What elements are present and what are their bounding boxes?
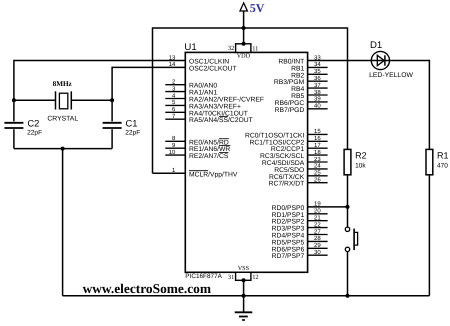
wire bottom ground rail xyxy=(63,295,430,297)
U1 pin 17 RC2/CCP1 xyxy=(271,142,328,153)
U1 pin 19 RD0/PSP0 xyxy=(272,201,322,212)
wire top power rail xyxy=(153,27,348,29)
label C1 xyxy=(126,118,138,129)
U1 pin 6 RA4/T0CKI/C1OUT xyxy=(165,106,248,117)
wire OSC2 pin14 to crystal right xyxy=(112,66,185,68)
svg-text:21: 21 xyxy=(314,215,321,222)
svg-text:32: 32 xyxy=(228,45,234,52)
wire 5V to VDD xyxy=(243,11,245,44)
label R1 xyxy=(437,151,449,161)
svg-text:25: 25 xyxy=(314,170,321,177)
junction crystal bottom center xyxy=(61,147,65,151)
svg-text:16: 16 xyxy=(314,135,321,142)
svg-text:CRYSTAL: CRYSTAL xyxy=(47,115,78,122)
label 8MHz xyxy=(53,80,73,88)
U1 pin 21 RD2/PSP2 xyxy=(272,215,328,226)
U1 pin 33 RB0/INT xyxy=(278,54,321,65)
wire button to ground rail xyxy=(347,252,349,296)
wire MCLR pin1 xyxy=(153,172,186,174)
svg-text:MCLR/Vpp/THV: MCLR/Vpp/THV xyxy=(189,171,238,178)
svg-text:24: 24 xyxy=(314,163,321,170)
wire left rail to MCLR xyxy=(152,27,154,173)
IC U1 PIC16F877A body xyxy=(185,52,307,272)
svg-text:18: 18 xyxy=(314,149,321,156)
U1 pin 15 RC0/T1OSO/T1CKI xyxy=(245,128,328,139)
junction button / ground rail xyxy=(346,294,350,298)
crystal X1 8MHz xyxy=(56,91,72,109)
wire left crystal vertical upper xyxy=(13,60,15,122)
svg-text:RE2/AN7/CS: RE2/AN7/CS xyxy=(189,153,229,160)
U1 pin 36 RB3/PGM xyxy=(274,75,328,86)
capacitor C2 xyxy=(4,123,23,128)
push button SW terminals xyxy=(345,227,349,251)
svg-text:40: 40 xyxy=(314,103,321,110)
svg-text:15: 15 xyxy=(314,128,321,135)
svg-text:23: 23 xyxy=(314,156,321,163)
svg-text:RB7/PGD: RB7/PGD xyxy=(275,107,305,114)
U1 VSS pin box (pins 31,12) xyxy=(228,265,259,283)
resistor R2 xyxy=(344,149,351,174)
wire left crystal vertical lower xyxy=(13,129,15,148)
U1 pin 9 RE1/AN6/WR xyxy=(165,142,230,153)
svg-text:U1: U1 xyxy=(184,42,196,53)
svg-text:C2: C2 xyxy=(27,118,39,129)
U1 pin 28 RD5/PSP5 xyxy=(272,235,328,246)
svg-text:22pF: 22pF xyxy=(27,130,42,137)
U1 pin 8 RE0/AN5/RD xyxy=(165,135,229,146)
svg-text:R2: R2 xyxy=(355,151,367,161)
wire crystal center tap to ground rail xyxy=(62,149,64,296)
label U1 xyxy=(184,42,196,53)
svg-text:17: 17 xyxy=(314,142,321,149)
svg-text:5V: 5V xyxy=(250,1,265,15)
wire crystal row left xyxy=(14,99,56,101)
U1 pin 14 OSC2/CLKOUT xyxy=(169,61,237,72)
U1 pin 13 OSC1/CLKIN xyxy=(169,54,230,65)
svg-text:22pF: 22pF xyxy=(125,130,140,137)
svg-text:31: 31 xyxy=(228,274,234,281)
U1 pin 30 RD7/PSP7 xyxy=(272,249,328,260)
U1 pin 39 RB6/PGC xyxy=(275,96,328,107)
svg-text:38: 38 xyxy=(314,89,321,96)
resistor R1 xyxy=(426,149,433,174)
label C2 xyxy=(27,118,39,129)
U1 pin 29 RD6/PSP6 xyxy=(272,242,328,253)
wire VSS to ground rail xyxy=(243,280,245,296)
wire R1 to ground rail xyxy=(428,175,430,296)
junction crystal row right xyxy=(110,98,114,102)
label 10k xyxy=(355,162,366,169)
U1 pin 3 RA1/AN1 xyxy=(165,85,217,96)
svg-text:LED-YELLOW: LED-YELLOW xyxy=(369,72,413,79)
svg-text:R1: R1 xyxy=(437,151,449,161)
svg-text:34: 34 xyxy=(314,61,321,68)
power symbol 5V arrow xyxy=(240,3,247,11)
label D1 xyxy=(370,40,382,51)
U1 pin 34 RB1 xyxy=(291,61,327,72)
svg-text:10k: 10k xyxy=(355,162,366,169)
junction RD0 / R2 / button xyxy=(346,205,350,209)
U1 pin 5 RA3/AN3/VREF+ xyxy=(165,99,241,110)
svg-text:12: 12 xyxy=(252,274,258,281)
wire crystal bottom xyxy=(14,148,112,150)
label 22pF (C2) xyxy=(27,130,42,137)
svg-text:VDD: VDD xyxy=(237,53,251,60)
U1 pin 26 RC7/RX/DT xyxy=(269,177,328,188)
U1 pin 22 RD3/PSP3 xyxy=(272,221,328,232)
svg-text:27: 27 xyxy=(314,228,321,235)
U1 pin 7 RA5/AN4/SS/C2OUT xyxy=(165,113,252,124)
wire R2 to button xyxy=(347,175,349,227)
U1 pin 1 MCLR/Vpp/THV xyxy=(172,167,238,178)
svg-text:PIC16F877A: PIC16F877A xyxy=(185,273,222,280)
U1 pin 4 RA2/AN2/VREF-/CVREF xyxy=(165,92,264,103)
U1 pin 35 RB2 xyxy=(291,68,327,79)
junction crystal row left xyxy=(12,98,16,102)
svg-text:RD7/PSP7: RD7/PSP7 xyxy=(272,253,305,260)
U1 pin 10 RE2/AN7/CS xyxy=(165,149,229,160)
U1 pin 24 RC5/SDO xyxy=(274,163,327,174)
svg-text:www.electroSome.com: www.electroSome.com xyxy=(83,281,211,296)
watermark www.electroSome.com xyxy=(83,281,211,296)
wire crystal row right xyxy=(71,99,112,101)
svg-text:28: 28 xyxy=(314,235,321,242)
wire LED corner down to R1 xyxy=(428,60,430,150)
U1 pin 37 RB4 xyxy=(291,82,327,93)
U1 pin 23 RC4/SDI/SDA xyxy=(262,156,328,167)
wire OSC1 pin13 to crystal left xyxy=(14,60,185,62)
svg-text:30: 30 xyxy=(314,249,321,256)
U1 pin 38 RB5 xyxy=(291,89,327,100)
svg-text:22: 22 xyxy=(314,221,321,228)
U1 VDD pin box (pins 32,11) xyxy=(228,42,258,60)
U1 pin 27 RD4/PSP4 xyxy=(272,228,328,239)
svg-text:35: 35 xyxy=(314,68,321,75)
label R2 xyxy=(355,151,367,161)
wire LED to R1 top corner xyxy=(390,60,430,62)
svg-text:C1: C1 xyxy=(126,118,138,129)
label 470 xyxy=(437,162,448,169)
U1 pin 25 RC6/TX/CK xyxy=(269,170,328,181)
svg-text:39: 39 xyxy=(314,96,321,103)
U1 pin 16 RC1/T1OSI/CCP2 xyxy=(250,135,328,146)
svg-text:VSS: VSS xyxy=(238,265,250,272)
junction VSS / ground rail xyxy=(242,294,246,298)
wire RD0 pin19 to button junction xyxy=(308,206,348,208)
label 22pF (C1) xyxy=(125,130,140,137)
wire right crystal vertical lower xyxy=(111,129,113,148)
svg-text:36: 36 xyxy=(314,75,321,82)
svg-text:20: 20 xyxy=(314,208,321,215)
svg-text:11: 11 xyxy=(252,45,258,52)
wire RB0 pin33 to LED xyxy=(308,60,372,62)
svg-text:OSC2/CLKOUT: OSC2/CLKOUT xyxy=(189,65,237,72)
svg-text:26: 26 xyxy=(314,177,321,184)
svg-text:37: 37 xyxy=(314,82,321,89)
LED D1 xyxy=(371,51,389,69)
svg-text:8MHz: 8MHz xyxy=(53,80,73,88)
label PIC16F877A xyxy=(185,273,222,280)
svg-text:RC7/RX/DT: RC7/RX/DT xyxy=(269,181,305,188)
svg-text:RA5/AN4/SS/C2OUT: RA5/AN4/SS/C2OUT xyxy=(189,117,253,124)
wire top rail down to R2 xyxy=(347,27,349,149)
label LED-YELLOW xyxy=(369,72,413,79)
U1 pin 20 RD1/PSP1 xyxy=(272,208,328,219)
svg-text:470: 470 xyxy=(437,162,448,169)
push button actuator xyxy=(354,229,358,251)
svg-text:D1: D1 xyxy=(370,40,382,51)
junction top rail / 5V xyxy=(242,26,246,30)
label CRYSTAL xyxy=(47,115,78,122)
wire right crystal vertical upper xyxy=(111,67,113,122)
capacitor C1 xyxy=(103,123,122,128)
U1 pin 40 RB7/PGD xyxy=(275,103,328,114)
svg-text:29: 29 xyxy=(314,242,321,249)
ground symbol xyxy=(235,296,253,320)
svg-text:10: 10 xyxy=(169,149,176,156)
net label 5V xyxy=(250,1,265,15)
U1 pin 2 RA0/AN0 xyxy=(165,79,217,90)
U1 pin 18 RC3/SCK/SCL xyxy=(260,149,328,160)
